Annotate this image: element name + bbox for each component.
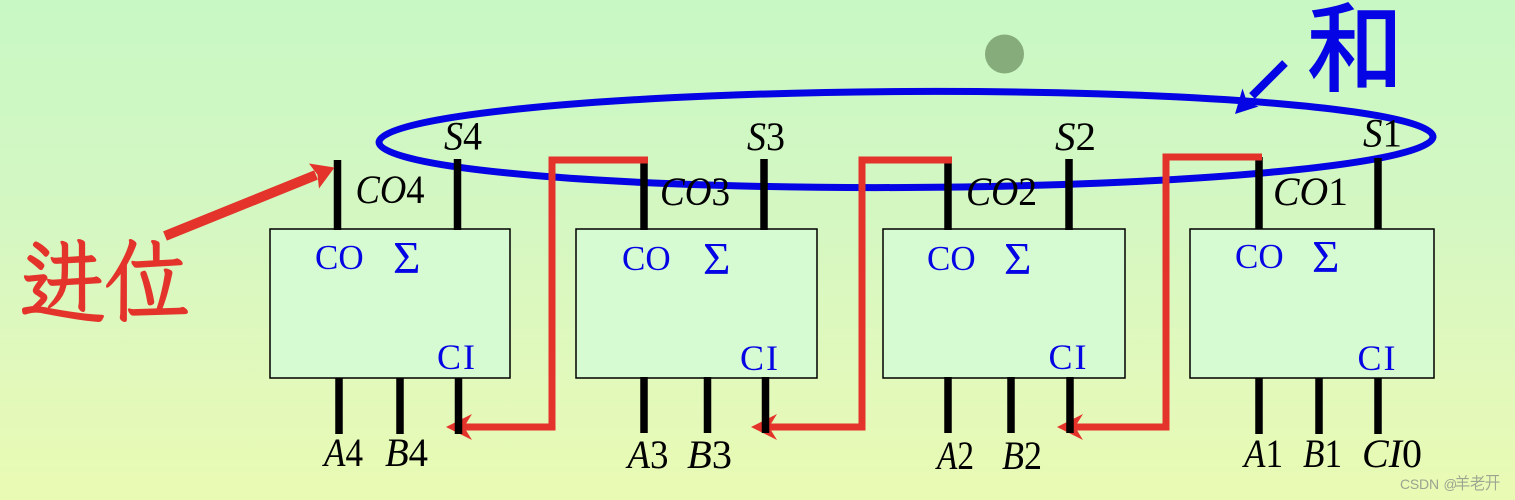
sum highlight ellipse xyxy=(379,89,1433,191)
svg-text:B2: B2 xyxy=(1002,433,1042,478)
pin CO3 xyxy=(640,160,648,230)
svg-text:Σ: Σ xyxy=(1004,234,1032,284)
svg-text:S3: S3 xyxy=(747,114,785,159)
svg-text:CI: CI xyxy=(437,337,477,377)
pin B4 xyxy=(396,378,404,434)
svg-text:CO3: CO3 xyxy=(660,169,730,214)
svg-text:A3: A3 xyxy=(625,432,669,477)
pin S3 xyxy=(760,159,768,230)
svg-text:CO: CO xyxy=(927,239,976,278)
decorative dot xyxy=(985,35,1024,74)
svg-text:B3: B3 xyxy=(687,432,732,477)
carry annotation arrow xyxy=(165,164,335,237)
svg-text:S4: S4 xyxy=(444,114,482,159)
svg-text:@: @ xyxy=(1444,477,1458,492)
svg-text:S2: S2 xyxy=(1055,114,1096,159)
carry wire CO2 to CI(U2) xyxy=(768,160,952,427)
carry wire CO3 to CI(U1) xyxy=(463,160,648,427)
pin A4 xyxy=(335,378,343,434)
svg-text:CO2: CO2 xyxy=(966,169,1037,214)
watermark 羊 xyxy=(1455,475,1469,491)
svg-text:A1: A1 xyxy=(1241,431,1283,476)
pin CO2 xyxy=(944,160,952,230)
svg-text:A2: A2 xyxy=(935,433,974,478)
full adder U4 (bit1) xyxy=(1190,229,1434,378)
pin CI of U1 xyxy=(455,378,463,434)
pin CO4 xyxy=(334,160,342,230)
svg-text:Σ: Σ xyxy=(1312,232,1340,282)
pin A2 xyxy=(944,377,952,433)
svg-text:CO1: CO1 xyxy=(1273,169,1348,214)
label 位 (carry) xyxy=(106,239,188,322)
full adder U2 (bit3) xyxy=(576,229,817,378)
svg-text:CI: CI xyxy=(740,338,780,378)
svg-text:Σ: Σ xyxy=(393,233,421,283)
full adder U3 (bit2) xyxy=(883,229,1125,378)
svg-text:CO: CO xyxy=(1235,237,1284,276)
pin B1 xyxy=(1315,378,1323,434)
carry wire top segment over CO2 pin xyxy=(859,157,953,164)
svg-text:B4: B4 xyxy=(385,430,428,475)
svg-text:CI0: CI0 xyxy=(1362,431,1422,476)
svg-text:A4: A4 xyxy=(321,430,363,475)
pin CI of U2 xyxy=(762,377,770,433)
watermark 老 xyxy=(1471,475,1485,491)
pin S1 xyxy=(1374,158,1382,229)
pin A3 xyxy=(640,377,648,433)
svg-text:CI: CI xyxy=(1358,338,1398,378)
pin S2 xyxy=(1065,159,1073,230)
svg-text:B1: B1 xyxy=(1303,431,1342,476)
svg-text:CO: CO xyxy=(315,238,364,277)
pin B2 xyxy=(1007,377,1015,433)
pin B3 xyxy=(704,377,712,433)
label 和 (sum) xyxy=(1309,2,1395,92)
pin CI of U3 xyxy=(1066,377,1074,433)
watermark 开 xyxy=(1486,475,1500,491)
pin A1 xyxy=(1255,378,1263,434)
sum annotation arrow xyxy=(1235,63,1285,114)
svg-text:CO4: CO4 xyxy=(356,167,425,212)
carry wire CO1 to CI(U3) xyxy=(1074,157,1262,427)
pin CI0 xyxy=(1374,378,1382,434)
svg-text:Σ: Σ xyxy=(703,234,731,284)
svg-text:CSDN: CSDN xyxy=(1400,476,1439,492)
svg-text:CO: CO xyxy=(622,239,671,278)
pin CO1 xyxy=(1255,157,1263,229)
carry wire top segment over CO1 pin xyxy=(1163,154,1263,161)
svg-text:S1: S1 xyxy=(1363,111,1402,156)
label 进 (carry) xyxy=(22,239,104,322)
svg-text:CI: CI xyxy=(1049,337,1089,377)
carry wire top segment over CO3 pin xyxy=(549,157,649,164)
pin S4 xyxy=(454,159,462,230)
full adder U1 (bit4) xyxy=(270,229,510,378)
